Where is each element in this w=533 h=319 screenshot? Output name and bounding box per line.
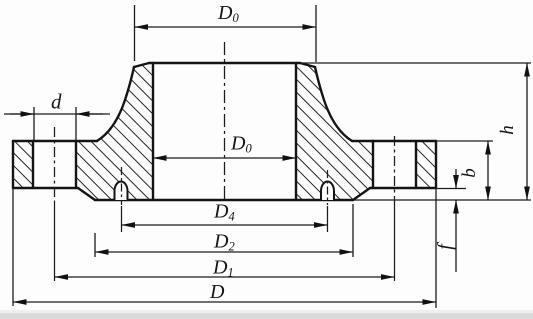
hatch section: right outer ring <box>416 141 436 188</box>
bolt hole right center extension <box>394 202 396 281</box>
svg-text:d: d <box>51 90 62 114</box>
gasket groove arc left <box>115 182 128 201</box>
groove left center line <box>121 167 123 205</box>
neck left top bevel <box>134 63 149 67</box>
flange top right <box>352 140 436 142</box>
svg-text:b: b <box>459 168 480 178</box>
bolt hole right center line <box>394 136 396 202</box>
dim f lower arrow and tail <box>455 200 457 272</box>
dim d line with outside arrows <box>4 113 110 115</box>
flange top extension to b <box>436 140 493 142</box>
bore right edge <box>295 63 297 200</box>
dim f upper arrow <box>455 169 457 189</box>
bottom gray band dark <box>0 313 533 319</box>
hatch section: right hub wall + flange between bore and bolt hole <box>296 63 373 200</box>
flange right edge <box>435 141 437 188</box>
dim D1 line <box>55 276 395 278</box>
svg-text:D: D <box>209 281 225 303</box>
bottom gray band light <box>0 310 533 313</box>
bolt hole right: left edge <box>372 141 374 188</box>
dim D extension right <box>435 188 437 308</box>
groove right extension <box>327 206 329 232</box>
bolt hole left: left edge <box>32 141 34 188</box>
main center line <box>224 42 226 202</box>
dim d extension left <box>33 107 35 140</box>
flange top left <box>13 140 97 142</box>
dim h line <box>526 63 528 200</box>
dim D2 extension left <box>94 233 96 257</box>
raised face right chamfer <box>353 188 370 200</box>
bolt hole left center line <box>54 127 56 202</box>
bolt hole left center extension <box>54 202 56 281</box>
svg-text:h: h <box>497 125 518 135</box>
right hub flare curve <box>315 67 352 141</box>
dim D4 line <box>122 224 328 226</box>
neck right top bevel <box>300 63 315 67</box>
dim D extension left <box>12 188 14 306</box>
groove left extension <box>121 206 123 232</box>
dim D2 extension right <box>352 204 354 257</box>
hatch section: left hub wall + flange between bolt hole and bore <box>76 63 153 200</box>
flange bottom left <box>13 187 78 189</box>
flange bottom right <box>370 187 436 189</box>
groove right center line <box>327 170 329 205</box>
dim D0 top extension left <box>134 5 136 61</box>
bolt hole right: right edge <box>415 141 417 188</box>
raised face bottom <box>95 199 353 201</box>
neck top extension to h <box>300 62 531 64</box>
gasket groove arc right <box>321 182 334 201</box>
dim d extension right <box>75 107 77 140</box>
neck top face and bore top edge <box>149 62 300 64</box>
hatch section: left outer ring <box>13 141 33 188</box>
flange bottom extension for f <box>436 188 466 190</box>
bore left edge <box>152 63 154 200</box>
dim D0 bore line <box>153 157 296 159</box>
left hub flare curve <box>97 67 134 141</box>
dim D line <box>13 301 436 303</box>
raised face bottom extension line <box>353 199 531 201</box>
dim b line <box>487 141 489 200</box>
flange left edge <box>12 141 14 188</box>
dim D0 top line <box>135 26 317 28</box>
bolt hole left: right edge <box>75 141 77 188</box>
raised face left chamfer <box>78 188 95 200</box>
dim D2 line <box>95 251 353 253</box>
dim D0 top extension right <box>315 5 317 62</box>
